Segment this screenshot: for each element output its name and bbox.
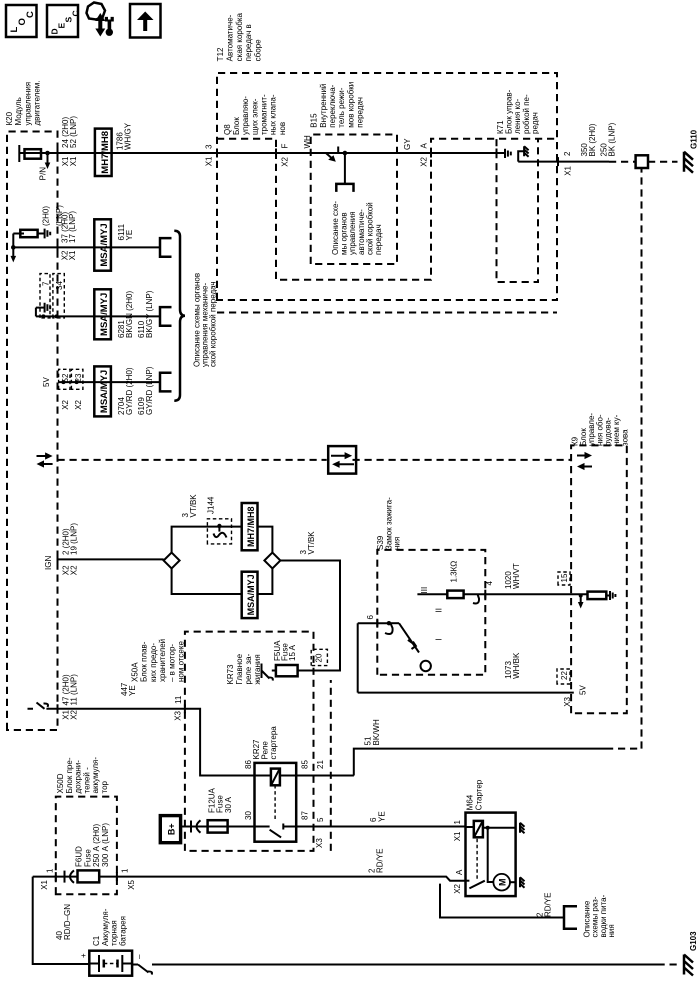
svg-text:торная: торная [110, 920, 119, 946]
fuse block X50D dashed box [56, 797, 117, 895]
partition dashed Q8/B15 inner boundary [217, 139, 557, 280]
svg-text:WH/GY: WH/GY [124, 122, 133, 150]
svg-text:X1: X1 [69, 156, 78, 166]
svg-text:3: 3 [205, 144, 214, 149]
svg-text:ния: ния [393, 537, 402, 550]
icon DESC box [47, 5, 78, 37]
svg-text:X50D: X50D [56, 773, 65, 793]
node junction c2 [11, 245, 16, 250]
node junction M64 [486, 826, 490, 830]
arrow branch c2 [12, 247, 14, 257]
solenoid link dashed M64 [476, 837, 478, 879]
svg-text:BK/GY (LNP): BK/GY (LNP) [145, 290, 154, 338]
battery plates C1 [89, 963, 99, 965]
brace grouping three circuits [174, 231, 185, 401]
solenoid coil M64 [466, 826, 474, 828]
arrow branch K9 [580, 596, 582, 604]
svg-text:BK/WH: BK/WH [372, 719, 381, 745]
svg-text:X5: X5 [127, 879, 136, 889]
svg-text:стартера: стартера [269, 726, 278, 760]
wire 6281 BK/GN [36, 315, 160, 317]
svg-text:X50A: X50A [131, 662, 140, 682]
svg-text:15: 15 [560, 573, 569, 582]
pin box 7 (2H0) dashed [40, 274, 50, 318]
svg-text:X1: X1 [205, 156, 214, 166]
svg-text:J144: J144 [207, 496, 216, 514]
svg-text:21: 21 [316, 760, 325, 769]
serial data arrows at K20 [42, 463, 53, 465]
terminal bracket c4 [160, 373, 172, 392]
svg-text:ния: ния [607, 924, 616, 937]
wire 51 BK/WH [296, 749, 606, 776]
svg-text:тор: тор [100, 780, 109, 793]
svg-text:Внутренний: Внутренний [319, 84, 328, 128]
svg-text:KR73: KR73 [226, 664, 235, 685]
terminal bracket power distribution [564, 906, 577, 928]
pin tick K71 entry [496, 149, 498, 158]
contact circle S39 [421, 661, 431, 671]
fuse F5UA 15A [276, 665, 298, 676]
relay contact KR73 [261, 664, 263, 679]
svg-text:11: 11 [174, 695, 183, 704]
svg-text:7: 7 [42, 281, 51, 286]
svg-text:переключа-: переключа- [328, 84, 337, 127]
sensor element cap bar in K20 [18, 145, 20, 162]
wire 1786 WH/GY vertical [19, 152, 505, 154]
module K71 TCM dashed box [497, 139, 539, 282]
pin tick T12 X2 A [430, 149, 432, 158]
resistor 1.3K ohm [447, 591, 463, 599]
wire 40 RD/D-GN battery positive [33, 877, 90, 964]
svg-text:MSA/MYJ: MSA/MYJ [99, 223, 110, 266]
svg-text:ных клапа-: ных клапа- [269, 94, 278, 135]
pin box 20 dashed [311, 649, 327, 665]
node pin taps wire 6281 [41, 314, 45, 318]
svg-text:щих элек-: щих элек- [250, 98, 259, 135]
svg-text:Q8: Q8 [223, 124, 232, 135]
wire branch via J144 to MH7/MH8 [172, 527, 273, 553]
svg-text:III: III [420, 587, 429, 594]
svg-text:дохрани-: дохрани- [74, 760, 83, 794]
svg-text:X2: X2 [74, 399, 83, 409]
svg-text:X2: X2 [453, 883, 462, 893]
svg-text:34: 34 [55, 281, 64, 290]
svg-text:YE: YE [378, 811, 387, 822]
svg-text:зова: зова [620, 429, 629, 446]
serial data dashed line [58, 459, 327, 461]
svg-text:Модуль: Модуль [14, 97, 23, 125]
svg-text:VT/BK: VT/BK [307, 531, 316, 555]
pin tick K20 c2 [57, 243, 59, 252]
svg-text:нов: нов [278, 122, 287, 135]
position III line with resistor 1.3K [417, 593, 447, 595]
svg-text:М: М [498, 878, 508, 886]
X50A connector X3 second dashed line [330, 680, 332, 851]
svg-text:+: + [79, 953, 88, 958]
svg-text:жигания: жигания [253, 654, 262, 684]
wire 1020 WH/VT [485, 593, 587, 595]
svg-text:Аккумуля-: Аккумуля- [101, 908, 110, 946]
connector MH7/MH8 on wire 1786 [95, 129, 112, 176]
svg-text:Х3: Х3 [563, 696, 572, 706]
svg-text:–: – [135, 954, 144, 959]
terminal bracket description (B15) [336, 184, 353, 192]
svg-text:1.3КΩ: 1.3КΩ [450, 561, 459, 583]
battery feed wire vertical [33, 877, 466, 881]
svg-text:телей -: телей - [82, 767, 91, 794]
fuse F6UD [78, 870, 100, 882]
svg-text:87: 87 [301, 811, 310, 820]
svg-text:М64: М64 [466, 794, 475, 810]
svg-text:С1: С1 [92, 935, 101, 946]
svg-text:(2H0): (2H0) [42, 206, 51, 226]
wire 2 RD/YE branch [440, 884, 564, 918]
ignition switch S39 dashed box [377, 550, 485, 675]
svg-text:5: 5 [316, 817, 325, 822]
svg-text:P/N: P/N [39, 167, 48, 181]
wire B+ to fuse F12UA [181, 826, 255, 828]
svg-text:X3: X3 [315, 838, 324, 848]
icon up-arrow box [130, 4, 161, 38]
inline connector symbol J144 [217, 524, 221, 528]
wire dashed to splice [609, 161, 636, 163]
svg-text:передач: передач [356, 97, 365, 128]
svg-text:MSA/MYJ: MSA/MYJ [99, 293, 110, 336]
svg-text:II: II [435, 608, 444, 612]
module K20 ECM dashed box [7, 132, 58, 731]
svg-text:X1: X1 [453, 831, 462, 841]
pin tick K71 X1 2 [557, 157, 559, 166]
wire motor to ground M64 [510, 881, 516, 883]
wire stub to resistor (K20 c2) [12, 234, 14, 248]
terminal bracket c2 [160, 238, 172, 257]
fuse F12UA 30A [208, 820, 228, 832]
detent curl S39 pivot [385, 623, 393, 634]
connector symbol below B+ [190, 821, 192, 833]
svg-text:C: C [71, 10, 81, 16]
svg-text:WH/BK: WH/BK [512, 652, 521, 679]
arrow P/N branch [47, 153, 49, 164]
svg-text:F6UD: F6UD [75, 846, 84, 867]
terminal bracket c3 [160, 307, 172, 326]
icon LOC box [6, 5, 37, 37]
svg-text:передач в: передач в [244, 24, 253, 61]
pin box 15 dashed K9 [558, 572, 570, 585]
svg-text:MSA/MYJ: MSA/MYJ [99, 370, 110, 413]
svg-text:GY/RD (2H0): GY/RD (2H0) [125, 367, 134, 415]
node junction B15 switch [343, 151, 348, 156]
svg-text:MSA/MYJ: MSA/MYJ [246, 574, 256, 615]
module K9 BCM dashed box [571, 445, 627, 713]
svg-text:G110: G110 [690, 129, 699, 149]
svg-text:G103: G103 [689, 931, 698, 951]
pin tick X50D X1 1 [55, 872, 57, 881]
svg-text:В15: В15 [310, 113, 319, 128]
svg-text:IGN: IGN [44, 556, 53, 570]
motor M64 [493, 874, 510, 891]
contact blade M64 [469, 881, 484, 889]
svg-text:Блок пре-: Блок пре- [65, 757, 74, 793]
svg-text:аккумуля-: аккумуля- [91, 757, 100, 794]
svg-text:– в мотор-: – в мотор- [167, 644, 176, 682]
svg-text:RD/YE: RD/YE [544, 893, 553, 917]
svg-text:двигателем.: двигателем. [33, 81, 42, 126]
svg-text:6: 6 [366, 615, 375, 620]
relay link dashed KR27 [274, 785, 276, 819]
svg-text:X2: X2 [420, 156, 429, 166]
node pivot S39 [387, 621, 391, 625]
svg-text:реле за-: реле за- [244, 653, 253, 684]
wire dashed to G110 [648, 161, 678, 163]
connector J144 dashed box [207, 519, 231, 544]
svg-text:ких предо-: ких предо- [149, 643, 158, 682]
ground internal K9 [610, 591, 615, 600]
svg-text:ская коробка: ская коробка [235, 12, 244, 61]
svg-text:L: L [9, 27, 20, 33]
svg-text:MH7/MH8: MH7/MH8 [100, 131, 111, 174]
connector MSA/MYJ on wire 6281 [94, 289, 111, 339]
svg-text:передач: передач [374, 224, 383, 255]
svg-text:Автоматиче-: Автоматиче- [225, 14, 234, 61]
ground chassis M64 motor [520, 877, 525, 888]
svg-text:RD/YE: RD/YE [376, 849, 385, 873]
connector symbol in X50D [64, 871, 66, 883]
svg-text:управления: управления [23, 82, 32, 126]
relay coil KR27 [255, 775, 271, 777]
wire resistor to ground K9 [606, 595, 610, 597]
svg-text:Fuse: Fuse [83, 849, 92, 867]
svg-text:X1: X1 [564, 165, 573, 175]
svg-text:1: 1 [453, 820, 462, 825]
svg-text:Т12: Т12 [216, 47, 225, 61]
svg-text:Стартер: Стартер [475, 779, 484, 810]
switch B15 dashed box [311, 135, 397, 265]
terminal B+ box [160, 816, 180, 843]
wire pin 6 S39 [358, 622, 389, 624]
svg-text:К20: К20 [5, 111, 14, 125]
svg-text:F: F [281, 144, 290, 149]
svg-text:X2: X2 [70, 565, 79, 575]
pin box 34 (LNP) dashed [53, 274, 64, 318]
wire to motor M64 [488, 828, 494, 882]
icon schematic-tools (arrows and wrench) [87, 3, 106, 20]
pin tick T12 X1 3 [216, 149, 218, 158]
connector MSA/MYJ on wire 2704 [94, 366, 111, 416]
svg-text:мов коробки: мов коробки [346, 82, 355, 128]
svg-text:30: 30 [244, 811, 253, 820]
transmission T12 dashed box [217, 73, 557, 300]
resistor element R in K20 [25, 149, 42, 159]
battery negative wire to G103 [132, 964, 138, 966]
wire branch via MSA/MYJ [172, 568, 273, 594]
relay KR27 box [255, 763, 297, 842]
svg-text:Блок: Блок [232, 117, 241, 135]
svg-text:I: I [435, 638, 444, 640]
wire 350 BK from K71 [518, 161, 609, 163]
svg-text:A: A [455, 869, 464, 875]
svg-text:тромагнит-: тромагнит- [259, 94, 268, 135]
splice square node [636, 155, 648, 168]
wire resistor to ground c2 [38, 233, 45, 235]
svg-text:BK (LNP): BK (LNP) [608, 122, 617, 156]
inner dashed line below T12 [217, 312, 557, 314]
ground in K20 c2 [45, 229, 51, 239]
pin box 23 dashed [71, 369, 83, 389]
svg-text:тель режи-: тель режи- [337, 87, 346, 127]
switch lever S39 [399, 623, 419, 652]
connector MH7/MH8 on IGN branch [242, 503, 258, 550]
wire 6 YE relay to starter [296, 826, 465, 828]
resistor in K20 c2 [20, 230, 37, 237]
svg-text:BK (2H0): BK (2H0) [588, 123, 597, 156]
detent curl S39 pin4 [473, 594, 479, 603]
svg-text:BK/GN (2H0): BK/GN (2H0) [125, 291, 134, 338]
chassis ground symbol K71 [524, 146, 529, 157]
pin box 52 dashed [59, 369, 70, 389]
svg-text:WH/VT: WH/VT [512, 563, 521, 589]
svg-text:RD/D–GN: RD/D–GN [63, 904, 72, 940]
wire 447 YE [58, 709, 255, 776]
pin tick X50D X5 1 [116, 872, 118, 881]
pin tick M64 X1 1 [465, 822, 467, 831]
svg-text:4: 4 [485, 581, 494, 586]
ground internal K71 [505, 149, 511, 158]
svg-text:17 (LNP): 17 (LNP) [68, 211, 77, 243]
wire dashed ground branch to 51 BK/WH [641, 168, 643, 749]
switch contact inside B15 [311, 152, 326, 154]
ground in K20 c3 [45, 303, 51, 313]
wire 2704 GY/RD [59, 381, 160, 383]
svg-text:X2: X2 [70, 709, 79, 719]
battery C1 box [89, 951, 132, 976]
svg-text:управляю-: управляю- [241, 96, 250, 135]
ground G110 [684, 152, 693, 173]
svg-text:X3: X3 [174, 710, 183, 720]
node diamond splice 2 [264, 553, 280, 569]
fuse block X50A dashed box [185, 632, 314, 851]
svg-text:хранителей: хранителей [158, 639, 167, 682]
svg-text:GY/RD (LNP): GY/RD (LNP) [145, 366, 154, 415]
svg-text:(LNP): (LNP) [55, 205, 64, 226]
svg-text:5V: 5V [579, 685, 588, 695]
svg-text:85: 85 [301, 760, 310, 769]
driver switch symbol in K20 (447) [28, 703, 58, 709]
pin tick S39 4 [484, 590, 486, 599]
ground chassis M64 solenoid [520, 823, 525, 834]
wire to 1073 WH/BK [357, 623, 359, 692]
pin tick Q8 X2 F [275, 149, 277, 158]
svg-text:15 A: 15 A [288, 644, 297, 661]
wire 1073 WH/BK [358, 692, 574, 694]
svg-text:MH7/MH8: MH7/MH8 [246, 506, 256, 547]
svg-text:редач: редач [530, 112, 539, 134]
svg-text:ном отсеке: ном отсеке [177, 641, 186, 682]
svg-text:В+: В+ [167, 823, 177, 835]
svg-text:X2: X2 [281, 156, 290, 166]
starter M64 box [466, 813, 516, 897]
serial data arrows at K9 [582, 466, 592, 468]
resistor in K9 [588, 592, 607, 600]
node pin taps wire 2704 [61, 380, 65, 384]
svg-text:VT/BK: VT/BK [189, 494, 198, 518]
svg-text:X1: X1 [68, 250, 77, 260]
pin tick X50A X3 11 [184, 704, 186, 713]
svg-text:YE: YE [125, 230, 134, 241]
svg-text:5V: 5V [42, 377, 51, 387]
svg-text:YE: YE [128, 685, 137, 696]
svg-text:250 А (2Н0): 250 А (2Н0) [92, 824, 101, 867]
svg-text:A: A [420, 143, 429, 149]
wire 3 VT/BK down to fuse F5UA [280, 561, 340, 671]
connector MSA/MYJ on wire 6111 [94, 219, 111, 270]
svg-text:2: 2 [563, 151, 572, 156]
relay contact KR27 [255, 826, 270, 828]
svg-text:батарея: батарея [118, 916, 127, 946]
svg-text:Главное: Главное [235, 653, 244, 684]
svg-text:1: 1 [46, 868, 55, 873]
svg-text:11 (LNP): 11 (LNP) [70, 674, 79, 706]
svg-text:52 (LNP): 52 (LNP) [69, 116, 78, 148]
svg-text:GY: GY [403, 138, 412, 150]
connector MSA/MYJ on IGN branch [242, 572, 258, 618]
wire IGN from K20 [58, 558, 164, 560]
node junction on wire 1786 [45, 151, 50, 156]
ground G103 [684, 955, 693, 976]
wire ground stub c3 [36, 307, 45, 309]
svg-text:Блок плав-: Блок плав- [140, 641, 149, 682]
svg-text:20: 20 [315, 653, 324, 662]
svg-text:X2: X2 [61, 399, 70, 409]
svg-text:сборе: сборе [254, 39, 263, 61]
node junction K9 pin15 [579, 594, 583, 598]
node diamond splice 1 [164, 553, 180, 569]
pin A wire M64 [466, 880, 470, 882]
svg-text:O: O [17, 18, 28, 25]
wire 6111 YE [13, 246, 160, 248]
wire branch to description bracket [344, 153, 346, 184]
svg-text:30 A: 30 A [224, 796, 233, 813]
svg-text:1: 1 [121, 868, 130, 873]
pin box 22 dashed K9 [557, 669, 570, 684]
pin tick K20 X1 24/52 [57, 149, 59, 158]
svg-text:C: C [25, 11, 36, 18]
svg-text:19 (LNP): 19 (LNP) [70, 523, 79, 555]
svg-text:86: 86 [244, 760, 253, 769]
svg-text:300 А (LNP): 300 А (LNP) [101, 823, 110, 867]
serial data continuation box with arrows [328, 446, 356, 474]
svg-text:X1: X1 [40, 879, 49, 889]
svg-text:22: 22 [560, 671, 569, 680]
